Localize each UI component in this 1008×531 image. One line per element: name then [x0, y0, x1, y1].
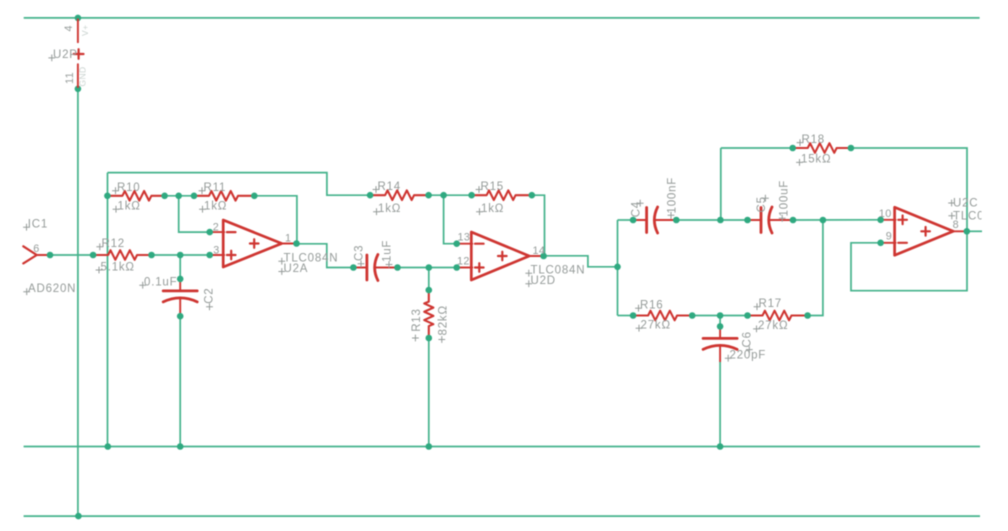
- label U2C value TLC084N (clipped at schematic pane edge): [948, 210, 1007, 222]
- svg-text:82kΩ: 82kΩ: [437, 305, 449, 335]
- svg-text:2: 2: [213, 222, 219, 234]
- capacitor C6: [703, 323, 737, 361]
- wire R16 to R17: [692, 315, 747, 317]
- junction R17 right tap: [820, 217, 827, 224]
- pin number 2 of U2A: [213, 222, 219, 234]
- label R18 name: [797, 134, 825, 146]
- svg-text:0.1uF: 0.1uF: [144, 277, 177, 289]
- connector IC1 AD620N output pin 6: [23, 246, 53, 263]
- wire R18 left vertical: [720, 148, 722, 220]
- wire R12 to U2A pin3: [152, 254, 210, 256]
- pin number 1 of U2A: [285, 233, 291, 245]
- wire C6 bottom to AGND rail: [719, 361, 721, 446]
- resistor R10: [104, 191, 168, 201]
- capacitor C4: [630, 207, 680, 233]
- wire U2C pin9 feedback: [851, 231, 967, 290]
- wire R15 to U2D output: [532, 195, 545, 256]
- svg-text:U2A: U2A: [284, 263, 309, 275]
- svg-text:C2: C2: [204, 287, 216, 303]
- wire input pin6 to R12: [50, 254, 93, 256]
- label C6 value 220pF: [725, 350, 766, 362]
- wire C2 bottom to AGND rail: [179, 316, 181, 446]
- capacitor C2: [163, 276, 197, 320]
- label U2P name: [48, 49, 77, 61]
- svg-text:220pF: 220pF: [730, 350, 767, 362]
- label R11 value 1k: [199, 201, 227, 213]
- svg-text:1: 1: [285, 233, 291, 245]
- junction U2P pin 11 / GND wire: [75, 86, 82, 93]
- label R16 name: [635, 300, 663, 312]
- label C5 value 100uF: [778, 180, 790, 222]
- svg-text:12: 12: [457, 256, 470, 268]
- svg-text:R18: R18: [802, 134, 826, 146]
- svg-text:TLC084N: TLC084N: [953, 210, 1008, 222]
- wire C2 top lead: [179, 255, 181, 279]
- svg-text:4: 4: [63, 25, 75, 31]
- svg-text:6: 6: [33, 243, 39, 255]
- junction R10/R11 to U2A pin2: [175, 193, 182, 200]
- wire C3 to U2D pin12: [398, 267, 457, 269]
- pin name V+ of U2P: [80, 25, 90, 36]
- svg-text:1kΩ: 1kΩ: [204, 201, 227, 213]
- resistor R14: [367, 190, 432, 200]
- wire R10 to R11: [165, 195, 194, 197]
- label R12 name: [96, 238, 125, 250]
- svg-text:U2C: U2C: [953, 198, 978, 210]
- op-amp U2A: [206, 220, 299, 267]
- pin number 12 of U2D: [457, 256, 470, 268]
- wire U2A output to C3: [297, 244, 354, 268]
- pin number 11 of U2P: [64, 72, 76, 84]
- label C2 name: [204, 287, 216, 310]
- junction AGND rail / R13 branch: [426, 443, 433, 450]
- label C3 value 1uF: [382, 240, 394, 268]
- svg-text:C5: C5: [756, 196, 768, 212]
- label R16 value 27k: [636, 320, 671, 332]
- svg-text:1uF: 1uF: [382, 240, 394, 262]
- label U2D value TLC084N: [525, 265, 585, 277]
- svg-text:R14: R14: [378, 181, 402, 193]
- label R17 value 27k: [753, 320, 788, 332]
- svg-text:1kΩ: 1kΩ: [118, 201, 141, 213]
- wire C4 to C5: [676, 219, 747, 221]
- label C6 name: [741, 331, 753, 353]
- junction AGND rail / C2 branch: [177, 443, 184, 450]
- pin number 9 of U2C: [886, 231, 892, 243]
- label R15 value 1k: [476, 203, 504, 215]
- svg-text:R10: R10: [117, 182, 141, 194]
- label IC1 value AD620N: [23, 283, 76, 295]
- pin name GND of U2P: [78, 66, 88, 86]
- capacitor C5: [744, 207, 796, 233]
- label C2 value 0.1uF: [139, 277, 177, 289]
- resistor R12: [90, 250, 155, 260]
- svg-text:3: 3: [213, 245, 219, 257]
- wire node to C4: [618, 219, 634, 221]
- resistor R13: [424, 287, 433, 342]
- junction R18 left on C4-C5 wire: [717, 217, 724, 224]
- svg-text:C4: C4: [630, 201, 642, 217]
- wire R13 bottom to AGND rail: [428, 338, 430, 447]
- wire U2D output to C4/R16 node: [544, 256, 618, 267]
- capacitor C3: [350, 255, 401, 281]
- svg-text:C3: C3: [354, 245, 366, 261]
- label U2A name: [278, 263, 308, 275]
- label R14 name: [373, 181, 401, 193]
- wire C4/R16 node vertical: [617, 220, 619, 316]
- pin number 14 of U2D: [533, 245, 546, 257]
- label U2D name: [525, 275, 556, 287]
- svg-text:14: 14: [533, 245, 546, 257]
- wire R11 to U2A output: [254, 196, 297, 244]
- label C5 name: [756, 195, 769, 213]
- wire junction to U2D pin13: [444, 195, 457, 244]
- svg-text:U2D: U2D: [531, 275, 556, 287]
- wire U2P pin11 to GND rail: [77, 89, 79, 516]
- wire R14 to R15: [429, 194, 472, 196]
- wire top feedback to R14: [108, 173, 371, 196]
- label R13 name: [411, 308, 423, 341]
- svg-text:9: 9: [886, 231, 892, 243]
- pin number 6 of IC1: [33, 243, 39, 255]
- label IC1 name: [23, 219, 48, 231]
- label R11 name: [199, 182, 227, 194]
- svg-text:R12: R12: [102, 238, 126, 250]
- svg-text:100nF: 100nF: [667, 177, 679, 214]
- resistor R15: [468, 190, 535, 200]
- pin number 8 of U2C: [953, 219, 959, 231]
- svg-text:13: 13: [458, 232, 471, 244]
- label C4 value 100nF: [667, 177, 679, 219]
- wire C6 top lead: [719, 316, 721, 327]
- resistor R18: [789, 143, 854, 153]
- resistor R11: [191, 191, 258, 201]
- label R18 value 15k: [796, 154, 831, 166]
- svg-text:27kΩ: 27kΩ: [758, 320, 788, 332]
- svg-text:10: 10: [879, 208, 892, 220]
- wire node to R16: [618, 315, 634, 317]
- wire AGND rail: [24, 446, 980, 448]
- svg-text:1kΩ: 1kΩ: [481, 203, 504, 215]
- svg-text:R15: R15: [481, 181, 505, 193]
- power symbol U2P (TLC084 supply pins): [74, 19, 84, 87]
- svg-text:5.1kΩ: 5.1kΩ: [101, 261, 135, 273]
- junction AGND rail / R10 branch: [105, 443, 112, 450]
- wire R13 top lead: [428, 268, 430, 291]
- resistor R17: [744, 311, 811, 321]
- junction V+ rail / U2P pin 4: [75, 15, 82, 22]
- label U2A value TLC084N: [278, 253, 338, 265]
- label R10 name: [112, 182, 140, 194]
- svg-text:C6: C6: [741, 331, 753, 347]
- junction C4/R16 node: [614, 264, 621, 271]
- svg-text:U2P: U2P: [53, 49, 78, 61]
- wire C5 to U2C pin10: [793, 219, 881, 221]
- junction R13 tap: [426, 264, 433, 271]
- svg-text:R17: R17: [759, 298, 783, 310]
- pin number 13 of U2D: [458, 232, 471, 244]
- svg-text:15kΩ: 15kΩ: [801, 154, 831, 166]
- junction C6 tap: [717, 312, 724, 319]
- svg-text:V+: V+: [80, 25, 90, 36]
- svg-text:R13: R13: [411, 308, 423, 332]
- svg-text:11: 11: [64, 72, 76, 84]
- label R13 value 82k: [437, 305, 449, 343]
- resistor R16: [630, 311, 696, 321]
- label R14 value 1k: [373, 203, 401, 215]
- wire junction to R17 right: [808, 220, 823, 316]
- svg-text:27kΩ: 27kΩ: [641, 320, 671, 332]
- svg-text:R16: R16: [640, 300, 664, 312]
- junction C2 tap on input wire: [177, 252, 184, 259]
- svg-text:AD620N: AD620N: [28, 283, 76, 295]
- wire R18 left horizontal: [721, 147, 793, 149]
- pin number 4 of U2P: [63, 25, 75, 31]
- svg-text:IC1: IC1: [28, 219, 48, 231]
- label U2C name: [948, 198, 978, 210]
- wire junction to U2A pin2: [179, 196, 210, 232]
- wire GND rail: [24, 515, 980, 517]
- junction R14/R15 to U2D pin13: [440, 192, 447, 199]
- pin number 3 of U2A: [213, 245, 219, 257]
- svg-text:GND: GND: [78, 66, 88, 86]
- label R15 name: [476, 181, 504, 193]
- label C3 name: [354, 245, 366, 268]
- wire R10 left vertical to AGND rail: [107, 173, 109, 447]
- label R12 value 5.1k: [96, 261, 135, 273]
- label R17 name: [754, 298, 782, 310]
- svg-text:R11: R11: [204, 182, 227, 194]
- wire R18 right to U2C output: [851, 148, 967, 231]
- label C4 name: [630, 200, 643, 218]
- junction AGND rail / C6 branch: [717, 443, 724, 450]
- label R10 value 1k: [113, 201, 141, 213]
- svg-text:100uF: 100uF: [778, 180, 790, 217]
- svg-text:1kΩ: 1kΩ: [378, 203, 401, 215]
- junction GND rail / U2P branch: [75, 513, 82, 520]
- pin number 10 of U2C: [879, 208, 892, 220]
- op-amp U2C: [877, 207, 970, 255]
- wire top V+ rail: [24, 17, 980, 19]
- wire U2C output right: [967, 230, 982, 232]
- op-amp U2D: [453, 232, 546, 280]
